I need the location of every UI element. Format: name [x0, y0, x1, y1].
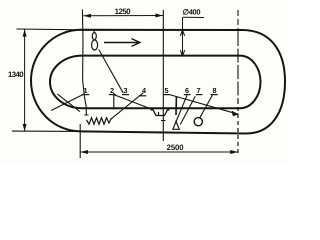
- svg-text:6: 6: [185, 86, 189, 95]
- svg-text:7: 7: [196, 86, 200, 95]
- svg-text:5: 5: [164, 86, 168, 95]
- svg-text:3: 3: [123, 86, 127, 95]
- svg-text:2: 2: [110, 86, 114, 95]
- svg-text:2500: 2500: [167, 143, 185, 152]
- svg-text:1250: 1250: [115, 7, 132, 16]
- svg-text:1340: 1340: [8, 70, 24, 79]
- svg-text:∅400: ∅400: [183, 8, 201, 17]
- svg-text:1: 1: [83, 86, 87, 95]
- svg-text:8: 8: [212, 86, 216, 95]
